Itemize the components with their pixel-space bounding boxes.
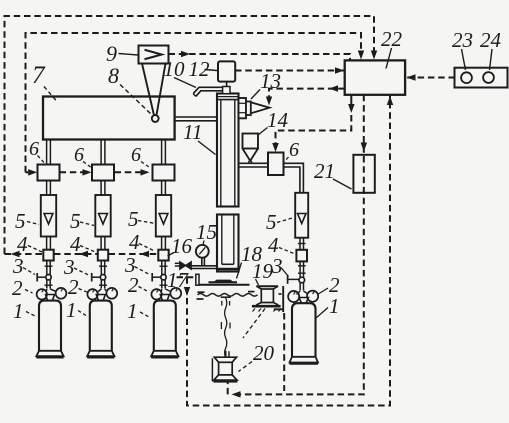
svg-text:1: 1 <box>66 298 77 322</box>
label 6 line 2 <box>74 144 92 168</box>
label 15 <box>196 220 217 245</box>
label 17 <box>167 268 190 292</box>
arrow into 22 top (outer loop) <box>371 51 377 60</box>
label 6 line 1 <box>29 138 44 163</box>
svg-text:6: 6 <box>29 138 39 160</box>
balance pan 19 <box>252 286 281 311</box>
tray 18 <box>199 284 250 286</box>
needle valve 3 line 1 <box>37 273 51 282</box>
label 22 <box>381 27 403 69</box>
wire outer dashed loop (left/top border to unit 22) <box>5 16 375 254</box>
svg-text:1: 1 <box>127 299 138 323</box>
label 2 line 2 <box>68 275 88 299</box>
amplifier 9 <box>139 46 169 64</box>
arrow down to burner cone <box>266 97 272 106</box>
svg-text:17: 17 <box>167 268 190 292</box>
gas cylinder 1 line 3 <box>151 301 178 358</box>
bracket of tray 18 <box>196 274 199 285</box>
wire dashed from unit 22 to burner 13 <box>269 89 345 99</box>
svg-text:5: 5 <box>266 210 277 234</box>
svg-text:4: 4 <box>129 230 140 254</box>
label 3 line 2 <box>63 255 89 279</box>
label 16 <box>168 234 193 258</box>
svg-text:2: 2 <box>12 276 23 300</box>
solenoid valve 4 line 1 <box>43 250 53 261</box>
bath right wall <box>274 286 283 312</box>
svg-text:5: 5 <box>128 207 139 231</box>
svg-text:20: 20 <box>253 341 275 365</box>
svg-text:22: 22 <box>381 27 403 51</box>
label 1 line 3 <box>127 299 150 323</box>
pipe from block 7 <box>101 140 105 165</box>
box 6 line 2 <box>92 165 114 181</box>
arrow into box 21 <box>361 143 368 152</box>
svg-text:21: 21 <box>314 159 335 183</box>
label 3 line 3 <box>124 253 150 277</box>
control unit 22 <box>345 60 405 94</box>
photo funnel of detector 8 <box>142 64 166 115</box>
wire from unit 22 down-left to box 6 of line 4 <box>276 95 355 147</box>
control block 7 <box>43 97 175 140</box>
arrow left on valve bus 1 <box>11 251 20 257</box>
wire dashed from pan 19 down to loop <box>283 313 285 391</box>
arrow up into 22 bottom <box>387 96 393 105</box>
label 10 <box>164 57 197 88</box>
rotameter 5 line 1 <box>41 195 56 237</box>
gas cylinder 1 line 4 <box>290 303 319 364</box>
wire dashed bottom loop from valve 17 to unit 22 <box>177 96 391 406</box>
needle valve 3 line 2 <box>92 273 106 282</box>
manometer 15 <box>196 245 209 266</box>
svg-text:15: 15 <box>196 220 217 244</box>
arrow into box 6 line 1 <box>28 169 37 176</box>
solenoid valve 4 line 2 <box>98 250 108 261</box>
pipe from block 7 to column 11 <box>175 117 217 121</box>
solenoid valve 4 line 3 <box>158 250 168 261</box>
arrow into box 6 line 4 <box>272 143 279 152</box>
svg-text:23: 23 <box>452 28 473 52</box>
label 8 <box>108 63 151 114</box>
label 5 line 2 <box>70 209 94 233</box>
label 3 line 1 <box>12 254 35 278</box>
label 12 <box>189 57 218 81</box>
label 1 line 1 <box>13 299 36 323</box>
label 20 <box>239 309 275 372</box>
side tube 10 <box>193 87 222 96</box>
pipe <box>47 181 51 196</box>
pipe <box>47 237 51 250</box>
wire dashed bus to boxes 6 <box>26 171 143 173</box>
label 4 line 3 <box>129 230 155 254</box>
wire dashed from panel 23/24 to unit 22 <box>407 77 455 79</box>
pipe column to box 6 line 4 <box>239 163 269 167</box>
shut-off valve (bowtie) <box>180 262 191 269</box>
box 6 line 3 <box>153 165 175 181</box>
svg-text:7: 7 <box>32 62 46 89</box>
label 13 <box>251 69 281 99</box>
label 6 line 3 <box>131 144 151 168</box>
svg-text:14: 14 <box>267 108 289 132</box>
label 21 <box>314 159 352 189</box>
burner cone 13 <box>251 102 270 113</box>
label 2 line 1 <box>12 276 33 300</box>
label 9 <box>106 41 138 66</box>
svg-text:2: 2 <box>128 273 139 297</box>
svg-text:4: 4 <box>70 232 81 256</box>
label 3 line 4 <box>271 254 289 278</box>
pipe with union <box>160 280 168 289</box>
label 24 <box>480 28 502 70</box>
arrow into 22 left <box>335 67 344 74</box>
suspension wire <box>221 297 231 357</box>
pipe with unions <box>298 261 306 277</box>
label 4 line 4 <box>268 233 295 257</box>
pipe with union <box>45 261 53 275</box>
regulator 2 gauges line 1 <box>37 288 67 301</box>
wire dashed through box 21 <box>363 156 365 192</box>
open stub <box>175 263 180 266</box>
label 18 <box>237 242 263 279</box>
label 5 line 3 <box>128 207 156 231</box>
label 5 line 4 <box>266 210 294 234</box>
burner fitting 13 <box>239 98 251 118</box>
pipe <box>300 283 303 291</box>
label 19 <box>252 259 274 285</box>
pipe with union <box>160 261 168 275</box>
svg-text:16: 16 <box>171 234 193 258</box>
svg-text:1: 1 <box>329 294 340 318</box>
wire dashed bus through valves 4 <box>5 253 159 255</box>
arrow into 22 from panel <box>407 74 416 81</box>
hopper 14 <box>243 134 259 164</box>
counterweight coil 20 <box>212 351 237 383</box>
arrow into 22 top (inner loop) <box>358 51 364 60</box>
svg-text:1: 1 <box>13 299 24 323</box>
svg-text:2: 2 <box>68 275 79 299</box>
bath water surface <box>197 292 282 299</box>
label 23 <box>452 28 473 70</box>
label 1 line 4 <box>316 294 340 318</box>
wire dashed from amplifier 9 to unit 22 <box>169 54 351 60</box>
pipe with union <box>45 280 53 289</box>
arrow left on valve bus 2 <box>79 251 88 257</box>
gas cylinder 1 line 2 <box>87 301 114 358</box>
svg-text:5: 5 <box>15 209 26 233</box>
arrow down on bottom loop left <box>184 287 190 296</box>
arrow out of 22 to burner <box>329 85 338 92</box>
wire dashed from sensor 12 to unit 22 <box>235 70 344 72</box>
needle valve 3 line 3 <box>152 273 166 282</box>
label 2 line 3 <box>128 273 148 297</box>
rotameter 5 line 4 <box>295 193 308 238</box>
label 7 <box>32 62 57 101</box>
arrow left on valve bus 3 <box>140 251 149 257</box>
box 6 line 4 <box>268 153 284 176</box>
regulator 2 gauges line 4 <box>288 291 318 304</box>
column 11 lower section <box>217 215 239 272</box>
arrow left to coil 20 <box>232 391 241 398</box>
label 4 line 1 <box>17 232 42 256</box>
regulator 2 gauges line 3 <box>151 288 181 301</box>
pipe <box>162 237 166 250</box>
arrow into box 6 line 3 <box>141 169 150 176</box>
arrow into box 6 line 2 <box>83 169 92 176</box>
svg-text:11: 11 <box>183 120 202 144</box>
svg-text:4: 4 <box>17 232 28 256</box>
box 6 line 1 <box>38 165 60 181</box>
svg-text:24: 24 <box>480 28 502 52</box>
power panel 23/24 <box>455 68 508 88</box>
solenoid valve 4 line 4 <box>296 250 307 262</box>
pipe <box>101 237 105 250</box>
pipe from block 7 <box>162 140 166 165</box>
label 5 line 1 <box>15 209 39 233</box>
svg-text:5: 5 <box>70 209 81 233</box>
column neck <box>223 87 230 94</box>
svg-text:3: 3 <box>12 254 24 278</box>
label 4 line 2 <box>70 232 97 256</box>
wire inner dashed loop (to unit 22) <box>26 33 362 172</box>
label 2 line 4 <box>318 273 341 297</box>
svg-text:6: 6 <box>131 144 141 166</box>
label 1 line 2 <box>66 298 86 322</box>
svg-text:6: 6 <box>289 139 299 161</box>
pipe with union <box>99 280 107 289</box>
label 11 <box>183 120 216 155</box>
pipe box 6 to rotameter line 4 <box>284 163 304 193</box>
rotameter 5 line 3 <box>156 195 171 237</box>
svg-text:8: 8 <box>108 63 119 88</box>
label 6 line 4 <box>284 139 300 163</box>
label 14 <box>258 108 289 135</box>
pipe <box>101 181 105 196</box>
pipe <box>162 181 166 196</box>
svg-text:6: 6 <box>74 144 84 166</box>
box 21 <box>353 155 374 193</box>
pipe valve to column bottom <box>191 266 217 269</box>
rotameter 5 line 2 <box>95 195 110 237</box>
needle valve 3 line 4 <box>288 275 305 284</box>
svg-text:13: 13 <box>260 69 281 93</box>
pipe with union <box>99 261 107 275</box>
wire dashed from unit 22 through box 21 to coil 20 <box>228 95 364 395</box>
gas cylinder 1 line 1 <box>36 301 63 358</box>
pipe from block 7 <box>47 140 51 165</box>
sensor head 12 <box>218 61 235 87</box>
arrow from amplifier 9 <box>181 51 190 57</box>
column 11 upper section <box>217 94 239 207</box>
pipe <box>298 238 306 250</box>
regulator 2 gauges line 2 <box>87 288 117 301</box>
sample 18 (black) <box>209 280 238 284</box>
port node 8 on block 7 <box>152 115 159 122</box>
